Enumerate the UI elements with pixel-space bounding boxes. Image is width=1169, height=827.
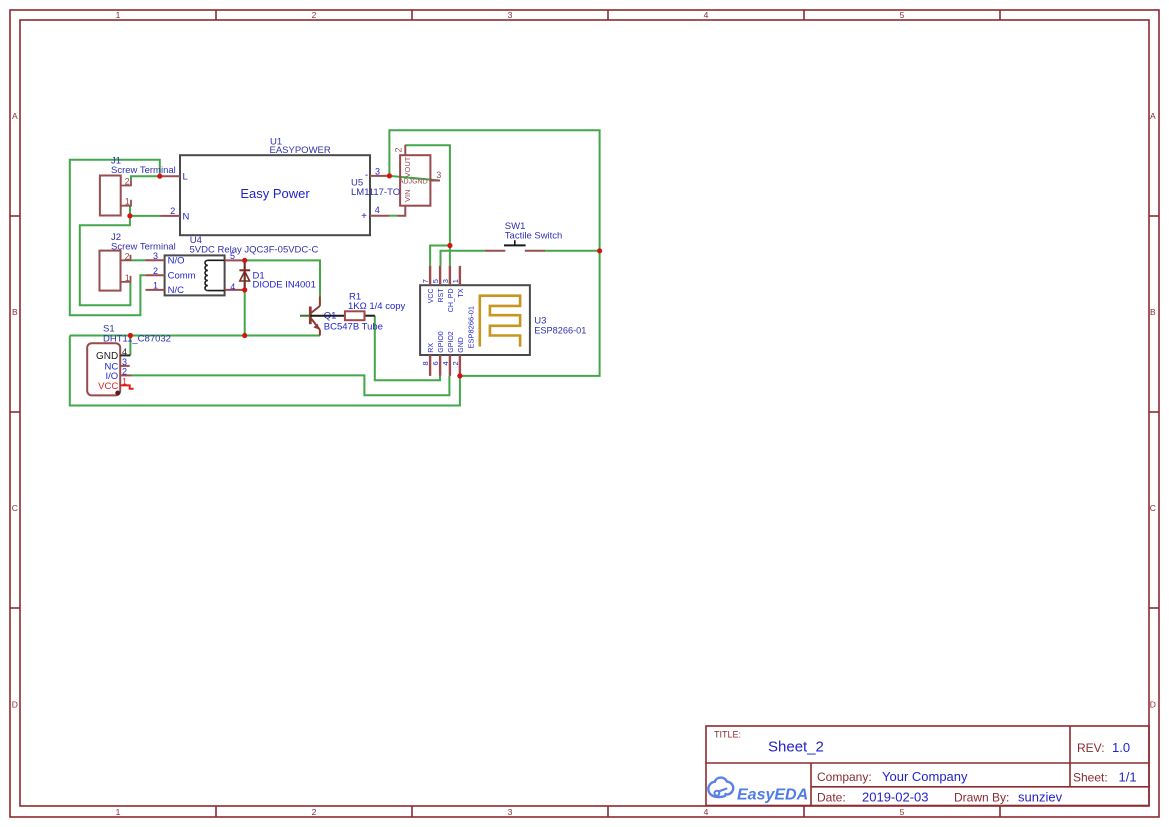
sensor S1 DHT11 — [87, 324, 171, 396]
diode D1 — [239, 263, 315, 291]
svg-text:BC547B Tube: BC547B Tube — [324, 321, 383, 332]
svg-text:DIODE IN4001: DIODE IN4001 — [253, 280, 316, 291]
antenna glyph — [480, 296, 520, 347]
wire GND rail horizontal — [70, 335, 320, 337]
wire relay pin5 to Q1 collector — [245, 260, 320, 296]
svg-text:1KΩ 1/4 copy: 1KΩ 1/4 copy — [348, 301, 406, 312]
svg-text:Sheet_2: Sheet_2 — [768, 739, 824, 756]
svg-text:2: 2 — [451, 361, 460, 365]
svg-text:VOUT: VOUT — [403, 156, 412, 177]
svg-text:4: 4 — [122, 347, 127, 357]
wire D1 anode down to GND rail — [244, 290, 246, 336]
svg-text:DHT11_C87032: DHT11_C87032 — [103, 333, 171, 344]
wire L-net: J1 pin2 to U1 L and U4 Comm loop — [131, 176, 160, 180]
module U1 EASYPOWER — [160, 137, 390, 236]
svg-text:N: N — [183, 211, 190, 222]
svg-text:3: 3 — [375, 166, 380, 176]
svg-text:ESP8266-01: ESP8266-01 — [467, 306, 476, 349]
wire ESP RST to SW1 left — [441, 251, 486, 266]
svg-text:TX: TX — [458, 288, 465, 297]
svg-text:RX: RX — [428, 343, 435, 353]
svg-text:2: 2 — [125, 177, 130, 187]
svg-text:+: + — [361, 211, 367, 222]
svg-text:7: 7 — [421, 279, 430, 283]
svg-text:B: B — [12, 307, 18, 317]
svg-text:1: 1 — [116, 10, 121, 20]
screw terminal J2 — [100, 232, 176, 291]
svg-text:4: 4 — [375, 205, 380, 215]
svg-text:2: 2 — [312, 807, 317, 817]
svg-text:D: D — [12, 700, 18, 710]
svg-text:D: D — [1150, 700, 1156, 710]
node SW1 right — [597, 248, 602, 253]
node ESP GND — [457, 373, 462, 378]
svg-text:Easy Power: Easy Power — [240, 186, 310, 201]
svg-text:C: C — [1150, 503, 1156, 513]
svg-text:TITLE:: TITLE: — [714, 730, 741, 740]
node CH_PD — [447, 243, 452, 248]
wire relay pin5 to pin4 behind D1 — [244, 260, 246, 290]
wire DHT11 I/O to ESP GPIO2 — [132, 375, 450, 395]
svg-text:4: 4 — [441, 361, 450, 365]
svg-text:4: 4 — [704, 10, 709, 20]
svg-text:ADJGND: ADJGND — [399, 179, 428, 186]
svg-text:EASYPOWER: EASYPOWER — [270, 145, 331, 156]
svg-text:Company:: Company: — [817, 770, 872, 784]
svg-text:GPIO2: GPIO2 — [448, 331, 455, 353]
svg-text:N/O: N/O — [168, 255, 185, 266]
svg-text:2: 2 — [170, 206, 175, 216]
svg-text:3: 3 — [508, 10, 513, 20]
svg-text:3: 3 — [441, 279, 450, 283]
wire GND loop around DHT11 to ESP GND — [70, 336, 460, 406]
wire N-net loop to J2 pin1 — [80, 216, 131, 305]
svg-text:Sheet:: Sheet: — [1073, 771, 1108, 785]
resistor R1 — [310, 292, 405, 321]
svg-text:2: 2 — [125, 252, 130, 262]
svg-text:1: 1 — [122, 377, 127, 387]
svg-text:N/C: N/C — [168, 285, 185, 296]
wire — [70, 160, 160, 315]
svg-text:2: 2 — [394, 147, 404, 152]
svg-text:GND: GND — [458, 337, 465, 353]
svg-text:1: 1 — [116, 807, 121, 817]
svg-text:1: 1 — [153, 280, 158, 290]
node U1 pin3 — [387, 173, 392, 178]
wire U1 pin4 to U5 VIN — [389, 215, 397, 217]
svg-text:6: 6 — [431, 361, 440, 365]
svg-text:5: 5 — [900, 807, 905, 817]
svg-text:-: - — [365, 170, 368, 181]
svg-text:2: 2 — [312, 10, 317, 20]
node relay pin5 — [242, 258, 247, 263]
svg-text:3: 3 — [153, 251, 158, 261]
svg-text:L: L — [183, 172, 188, 183]
ESP8266 module U3 — [420, 266, 586, 376]
svg-text:3: 3 — [122, 357, 127, 367]
svg-text:5: 5 — [900, 10, 905, 20]
svg-text:1: 1 — [451, 279, 460, 283]
svg-text:4: 4 — [230, 282, 235, 292]
svg-text:1: 1 — [125, 273, 130, 283]
wire SW1 right to riser — [545, 250, 600, 252]
relay U4 — [146, 235, 319, 296]
svg-text:ESP8266-01: ESP8266-01 — [534, 325, 586, 335]
transistor Q1 — [300, 297, 383, 336]
svg-text:CH_PD: CH_PD — [448, 289, 455, 313]
TITLE BLOCK — [706, 726, 1149, 806]
wire U5 VOUT to CH_PD vertical — [405, 145, 450, 266]
svg-text:4: 4 — [704, 807, 709, 817]
svg-text:8: 8 — [421, 361, 430, 365]
wire GND to DHT11 pin4 — [129, 336, 131, 356]
wire CH_PD node to ESP VCC — [430, 246, 450, 266]
svg-text:3: 3 — [436, 170, 441, 180]
svg-text:2: 2 — [122, 367, 127, 377]
tactile switch SW1 — [485, 221, 562, 251]
screw terminal J1 — [100, 156, 176, 216]
svg-text:VCC: VCC — [428, 289, 435, 304]
wire J2 pin2 to U4 N/O — [130, 259, 145, 261]
svg-text:1/1: 1/1 — [1119, 770, 1137, 785]
svg-text:sunziev: sunziev — [1018, 790, 1063, 805]
wire GND rail to right riser and U1 pin3 — [389, 130, 599, 376]
svg-text:RST: RST — [438, 288, 445, 303]
svg-text:LM1117-TO: LM1117-TO — [351, 187, 400, 198]
regulator U5 LM1117 — [351, 145, 441, 216]
svg-text:A: A — [1150, 111, 1156, 121]
svg-text:Comm: Comm — [168, 270, 196, 281]
svg-text:5: 5 — [431, 279, 440, 283]
svg-text:Date:: Date: — [817, 791, 846, 805]
EasyEDA logo — [708, 778, 808, 804]
svg-text:2019-02-03: 2019-02-03 — [862, 790, 929, 805]
node J1.1/U1.N — [127, 213, 132, 218]
svg-text:1.0: 1.0 — [1112, 740, 1130, 755]
svg-text:EasyEDA: EasyEDA — [737, 787, 808, 804]
svg-text:GND: GND — [96, 351, 118, 362]
svg-text:1: 1 — [125, 197, 130, 207]
svg-text:Screw Terminal: Screw Terminal — [111, 165, 176, 176]
svg-text:GPIO0: GPIO0 — [438, 331, 445, 353]
svg-text:2: 2 — [153, 266, 158, 276]
svg-text:Tactile Switch: Tactile Switch — [505, 230, 563, 241]
node DHT11 pin4 — [128, 333, 133, 338]
svg-text:Screw Terminal: Screw Terminal — [111, 241, 176, 252]
svg-text:C: C — [12, 503, 18, 513]
wire N-net: J1 pin1 to U1 N — [130, 206, 161, 216]
svg-text:3: 3 — [508, 807, 513, 817]
svg-text:REV:: REV: — [1077, 741, 1105, 755]
svg-text:A: A — [12, 111, 18, 121]
node D1 GND — [242, 333, 247, 338]
svg-text:VIN: VIN — [403, 189, 412, 202]
node relay pin4 — [242, 287, 247, 292]
wire R1 to ESP GPIO0 — [375, 316, 440, 381]
svg-text:5VDC Relay JQC3F-05VDC-C: 5VDC Relay JQC3F-05VDC-C — [190, 244, 319, 255]
svg-text:VCC: VCC — [98, 381, 118, 392]
junction dots — [127, 173, 602, 378]
wire diagonal U1 pin3 to U5 ADJ/GND — [389, 176, 440, 181]
svg-text:Drawn By:: Drawn By: — [954, 791, 1009, 805]
svg-text:Your Company: Your Company — [882, 769, 968, 784]
svg-text:B: B — [1150, 307, 1156, 317]
node J1.2/U1.L — [157, 174, 162, 179]
